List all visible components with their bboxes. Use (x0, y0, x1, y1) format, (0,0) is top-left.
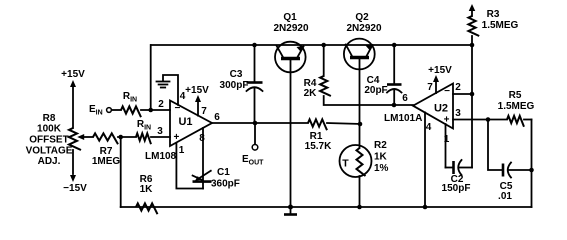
resistor R5 1.5MEG (498, 90, 535, 127)
svg-text:LM101A: LM101A (384, 113, 422, 124)
transistor Q1 2N2920 (273, 12, 308, 123)
wire U1 output (212, 122, 308, 124)
svg-text:6: 6 (214, 112, 220, 123)
wire riser R3 to C2 (471, 45, 473, 168)
svg-text:R2: R2 (374, 140, 387, 151)
svg-text:OFFSET: OFFSET (29, 135, 68, 146)
wire riser node B to top rail (150, 45, 152, 110)
svg-text:T: T (342, 158, 349, 170)
svg-text:C3: C3 (230, 69, 243, 80)
svg-text:2: 2 (158, 99, 164, 110)
svg-text:.01: .01 (498, 191, 512, 202)
svg-text:VOLTAGE: VOLTAGE (26, 146, 73, 157)
wire U2 pin 2 (453, 93, 472, 95)
svg-text:RIN: RIN (137, 119, 151, 132)
svg-text:R3: R3 (487, 9, 500, 20)
resistor R2 1K 1% (thermistor) (340, 124, 389, 207)
svg-text:+: + (174, 132, 180, 143)
node pin4 junction (423, 205, 428, 210)
node E junction (R4/C4/U2 pin6) (392, 103, 397, 108)
svg-text:+: + (444, 115, 450, 126)
svg-text:EIN: EIN (89, 104, 103, 117)
node A junction (118, 135, 123, 140)
ground (bottom rail) (284, 205, 297, 215)
resistor R6 1K (136, 174, 157, 214)
wire RIN lower to U1 pin 3 (151, 136, 170, 138)
wire bottom rail (121, 206, 532, 208)
svg-text:Q1: Q1 (283, 12, 297, 23)
svg-text:Q2: Q2 (355, 12, 369, 23)
svg-text:U2: U2 (434, 103, 448, 115)
resistor R3 1.5MEG (468, 4, 518, 47)
svg-text:U1: U1 (178, 116, 192, 128)
svg-text:15.7K: 15.7K (305, 141, 332, 152)
resistor R7 1MEG (92, 133, 121, 167)
svg-text:6: 6 (402, 93, 408, 104)
svg-text:1: 1 (179, 145, 185, 156)
wire top feedback rail (151, 44, 472, 46)
potentiometer R8 100K (69, 128, 84, 150)
resistor RIN (upper) (121, 91, 141, 117)
node G junction (pin3/R5/C5) (486, 117, 491, 122)
node R2 bottom junction (357, 205, 362, 210)
svg-text:4: 4 (426, 122, 432, 133)
wire Q1 base to ground rail (290, 123, 292, 207)
svg-text:1%: 1% (374, 163, 389, 174)
pin 8 lead (202, 128, 204, 180)
op-amp U2 LM101A triangle (413, 84, 453, 129)
svg-text:100K: 100K (37, 124, 62, 135)
svg-text:+15V: +15V (185, 85, 209, 96)
svg-text:1K: 1K (140, 184, 154, 195)
svg-text:7: 7 (427, 82, 433, 93)
label R8 100K OFFSET VOLTAGE ADJ. (26, 113, 73, 167)
power -15V (R8 bottom) (63, 150, 87, 194)
wire RIN to U1 pin 2 (141, 109, 170, 111)
svg-text:RIN: RIN (123, 91, 137, 104)
resistor R4 2K (304, 43, 394, 105)
op-amp U1 LM108 triangle (170, 101, 212, 147)
ground (U1 pin 4) (157, 75, 179, 105)
pin 4 lead (U2) (424, 112, 426, 207)
capacitor C2 150pF (442, 160, 472, 194)
svg-text:3: 3 (157, 126, 163, 137)
pin 1 lead (U2) (445, 124, 447, 168)
svg-text:360pF: 360pF (211, 179, 240, 190)
svg-text:1.5MEG: 1.5MEG (498, 101, 535, 112)
svg-text:150pF: 150pF (442, 183, 471, 194)
node D junction (R1/Q2 base/R2) (358, 122, 363, 127)
wire R8 wiper to R7 (84, 136, 93, 138)
svg-text:R8: R8 (43, 113, 56, 124)
capacitor C5 .01 (488, 120, 534, 203)
svg-text:7: 7 (201, 106, 207, 117)
svg-text:ADJ.: ADJ. (38, 156, 61, 167)
transistor Q2 2N2920 (344, 12, 382, 124)
power +15V (U1 pin 7) (185, 85, 209, 116)
capacitor C1 360pF (variable) (193, 167, 240, 190)
svg-text:EOUT: EOUT (242, 154, 264, 167)
svg-text:2: 2 (455, 82, 461, 93)
capacitor C4 20pF (364, 43, 401, 105)
wire U2 output to node E (394, 104, 413, 106)
svg-text:−15V: −15V (63, 183, 87, 194)
svg-text:20pF: 20pF (364, 85, 387, 96)
svg-text:2K: 2K (304, 88, 318, 99)
svg-text:−: − (444, 86, 450, 97)
wire R5 right down to bottom rail (531, 120, 533, 208)
svg-text:2N2920: 2N2920 (273, 23, 308, 34)
node F junction (pin2/R3 riser) (470, 92, 475, 97)
power +15V (U2 pin 7) (428, 65, 452, 93)
node C junction (U1 out / C3 / E_OUT) (253, 121, 258, 126)
svg-text:3: 3 (455, 108, 461, 119)
resistor R1 15.7K (305, 119, 361, 152)
svg-text:1.5MEG: 1.5MEG (482, 20, 519, 31)
svg-text:2N2920: 2N2920 (346, 23, 381, 34)
wire R7 to node A (118, 136, 136, 138)
svg-text:1K: 1K (374, 152, 388, 163)
svg-text:C1: C1 (217, 167, 230, 178)
resistor RIN (lower) (136, 119, 151, 144)
terminal E_OUT (242, 123, 264, 167)
capacitor C3 300pF (220, 43, 263, 123)
pin 1 lead (176, 143, 203, 189)
terminal E_IN (89, 104, 111, 117)
svg-text:R5: R5 (509, 90, 522, 101)
svg-text:1MEG: 1MEG (92, 156, 121, 167)
node B junction (inverting input) (148, 108, 153, 113)
svg-text:+15V: +15V (61, 69, 85, 80)
power +15V (R8 top) (61, 69, 85, 128)
wire E_IN to RIN (111, 109, 121, 111)
wire node A down to bottom rail (120, 137, 122, 207)
svg-text:+15V: +15V (428, 65, 452, 76)
svg-text:8: 8 (199, 133, 205, 144)
svg-text:1: 1 (444, 134, 450, 145)
svg-text:300pF: 300pF (220, 80, 249, 91)
svg-text:LM108: LM108 (145, 151, 177, 162)
wire U2 pin 3 (453, 119, 507, 121)
